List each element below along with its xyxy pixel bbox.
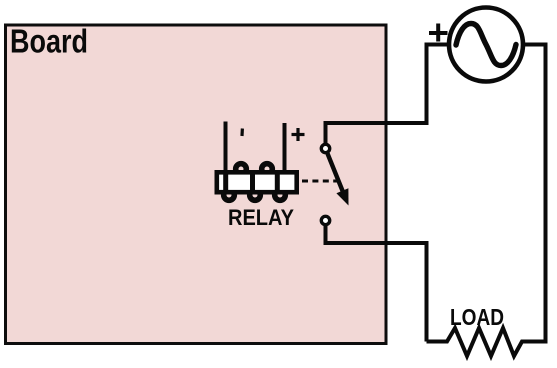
switch armature arrow [328, 154, 349, 206]
relay coil winding humps (top) [236, 164, 273, 175]
svg-text:RELAY: RELAY [228, 205, 294, 230]
svg-text:LOAD: LOAD [450, 304, 504, 330]
wire: relay coil right lead [283, 123, 287, 172]
AC source sine wave [456, 24, 516, 66]
wire: relay coil left lead [224, 122, 228, 173]
relay coil winding humps (bottom) [224, 190, 286, 201]
switch bottom contact node [321, 216, 329, 224]
board [6, 25, 387, 344]
load resistor zigzag and wire to source right terminal [427, 45, 546, 357]
svg-text:Board: Board [10, 23, 88, 60]
relay coil winding front bars [226, 170, 278, 195]
plus label (coil positive terminal) [292, 128, 305, 141]
wire: switch top contact to AC source positive terminal [326, 45, 450, 145]
AC source [449, 8, 523, 82]
minus label (coil negative terminal) [240, 128, 244, 136]
dashed mechanical linkage [302, 180, 339, 183]
switch top contact node [321, 144, 329, 152]
plus label (source positive terminal) [429, 24, 448, 42]
wire: switch bottom contact to load [326, 226, 427, 342]
relay coil core box [217, 172, 297, 192]
